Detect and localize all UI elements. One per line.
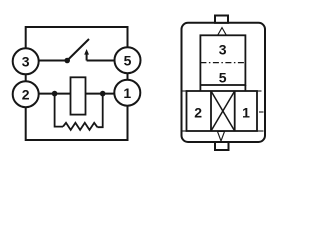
relay body outline (connector view) bbox=[182, 23, 266, 142]
mounting hole X mark bbox=[211, 91, 235, 131]
keying triangle (top, pointing up) bbox=[218, 28, 227, 36]
terminal 2 bbox=[13, 81, 39, 107]
wire: terminal 2 to coil bbox=[39, 93, 71, 95]
centerline between slots 3 and 5 (dash-dot) bbox=[200, 62, 245, 64]
switch S1 movable arm bbox=[67, 39, 89, 61]
wire: node A down to resistor bbox=[55, 94, 63, 127]
wire: coil to terminal 1 bbox=[86, 93, 115, 95]
wire: link terminal 3 to terminal 2 bbox=[25, 74, 27, 81]
terminal 5 bbox=[115, 47, 141, 73]
wire: switch contact to terminal 5 bbox=[87, 60, 115, 62]
junction node B (right of coil) bbox=[100, 91, 106, 97]
svg-text:1: 1 bbox=[242, 105, 250, 121]
pin label 1 (slot) bbox=[242, 105, 250, 121]
resistor R1 bbox=[63, 123, 97, 130]
svg-text:1: 1 bbox=[123, 85, 131, 101]
top mounting tab bbox=[215, 16, 228, 23]
pin label 3 (slot) bbox=[219, 42, 227, 58]
wire: top loop from terminal 3 to terminal 5 bbox=[26, 27, 128, 48]
junction: switch pivot dot bbox=[64, 58, 70, 64]
terminal 3 bbox=[13, 48, 39, 74]
slot divider left (edge of X box) bbox=[210, 91, 212, 131]
bottom mounting tab bbox=[215, 142, 229, 150]
pin label 2 (slot) bbox=[194, 105, 202, 121]
wire: terminal 3 to switch pivot bbox=[39, 60, 67, 62]
svg-text:5: 5 bbox=[219, 69, 227, 85]
switch S1 fixed contact arrow bbox=[84, 49, 89, 61]
wire: resistor up to node B bbox=[97, 94, 102, 128]
keying triangle (bottom, pointing down) bbox=[218, 132, 225, 142]
svg-text:2: 2 bbox=[22, 86, 30, 102]
wire: link terminal 5 to terminal 1 bbox=[127, 73, 129, 79]
svg-text:2: 2 bbox=[194, 105, 202, 121]
svg-text:3: 3 bbox=[22, 53, 30, 69]
relay coil K1 bbox=[71, 77, 86, 114]
centerline stub left of row (dash-dot) bbox=[183, 91, 187, 131]
terminal row box (slots 2, hole, 1) bbox=[187, 91, 258, 131]
terminal 1 bbox=[114, 80, 140, 106]
terminal slot box 3/5 bbox=[200, 35, 245, 91]
svg-text:5: 5 bbox=[124, 52, 132, 68]
wire: bottom loop from terminal 2 to terminal 1 bbox=[26, 106, 128, 140]
svg-text:3: 3 bbox=[219, 42, 227, 58]
pin label 5 (slot) bbox=[219, 69, 227, 85]
centerline stub right of row (dash-dot) bbox=[257, 91, 264, 131]
junction node A (left of coil) bbox=[52, 91, 58, 97]
slot divider right (edge of X box) bbox=[234, 91, 236, 131]
